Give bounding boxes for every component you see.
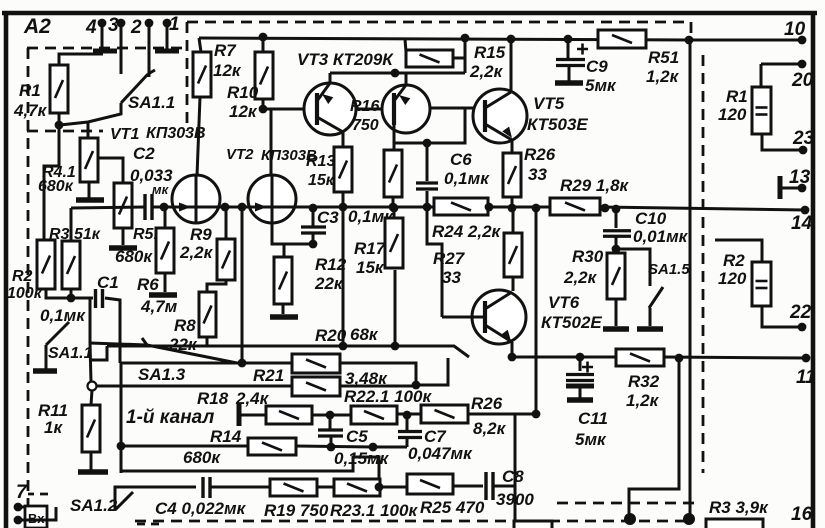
node top rail right — [685, 36, 694, 45]
svg-text:R26: R26 — [471, 394, 503, 413]
A2 dashed boundary inner box top — [27, 47, 187, 50]
wire R26 right — [468, 413, 536, 416]
svg-text:R16: R16 — [350, 98, 379, 115]
svg-text:680к: 680к — [115, 247, 153, 266]
svg-text:1-й канал: 1-й канал — [126, 407, 214, 428]
svg-text:R32: R32 — [628, 372, 660, 391]
resistor R19 — [270, 479, 317, 496]
svg-text:4,7к: 4,7к — [13, 101, 48, 120]
svg-text:R18: R18 — [197, 389, 229, 408]
svg-text:0,1мк: 0,1мк — [444, 169, 490, 188]
resistor R23.1 — [334, 479, 380, 496]
R20 bus left jog — [90, 346, 107, 360]
svg-text:22: 22 — [789, 302, 812, 323]
wire C7 bottom stub — [406, 438, 409, 447]
node C9 bus — [564, 35, 573, 44]
svg-text:SA1.1: SA1.1 — [128, 93, 175, 112]
resistor R3 body — [62, 241, 80, 289]
pin 2 wire — [148, 23, 151, 77]
wire R7 top stub — [199, 38, 201, 52]
capacitor C4 — [203, 477, 210, 498]
resistor R26 — [503, 153, 521, 197]
bottom component box mid — [514, 521, 552, 528]
transistor VT6 КТ502Е — [472, 290, 526, 344]
gate bus through VT1 VT2 — [153, 206, 434, 209]
resistor R1 120 — [752, 87, 771, 134]
ground under R4.1 — [76, 197, 104, 203]
capacitor C5 — [318, 430, 343, 436]
A2 dashed boundary left vertical — [27, 48, 30, 528]
svg-text:1,2к: 1,2к — [646, 67, 680, 86]
svg-text:12к: 12к — [213, 61, 242, 80]
input jack box Вх — [25, 506, 47, 528]
vertical x515 — [514, 414, 517, 521]
wire R21 right — [340, 363, 416, 385]
wire C9 bottom stub — [568, 66, 571, 81]
svg-text:R14: R14 — [210, 427, 242, 446]
wire R4.1 tap to R5.1 — [98, 158, 123, 183]
svg-text:C10: C10 — [635, 209, 667, 228]
svg-text:680к: 680к — [38, 178, 74, 195]
node R13 bus — [339, 203, 348, 212]
svg-text:R10: R10 — [227, 83, 259, 102]
wire SA1.3 pivot feed — [90, 343, 147, 345]
wire C6 top stub — [426, 143, 429, 181]
wire R3 bottom — [70, 289, 73, 298]
wire R17 top — [393, 207, 396, 218]
svg-text:R2: R2 — [723, 251, 745, 270]
resistor R21 — [292, 354, 340, 373]
svg-text:R13: R13 — [306, 153, 335, 170]
svg-text:R25 470: R25 470 — [420, 498, 485, 517]
svg-text:SA1.5: SA1.5 — [648, 261, 690, 278]
svg-text:16: 16 — [791, 504, 813, 525]
wire VT5 collector up — [510, 40, 513, 92]
svg-text:0,047мк: 0,047мк — [408, 444, 473, 463]
resistor R16 — [384, 150, 402, 197]
border right — [811, 11, 816, 528]
svg-text:0,01мк: 0,01мк — [633, 227, 689, 246]
svg-text:VT2: VT2 — [226, 146, 254, 163]
wire vertical 537 — [535, 208, 538, 414]
wire R3 top stub — [70, 208, 73, 241]
R20 bus — [107, 346, 469, 357]
svg-text:R26: R26 — [524, 145, 556, 164]
capacitor C9 plates — [556, 60, 585, 66]
svg-text:120: 120 — [718, 105, 747, 124]
wire SA1.1 lower pivot — [45, 345, 48, 369]
node ring SA1.2 link — [88, 382, 97, 391]
svg-text:SA1.2: SA1.2 — [70, 496, 118, 515]
svg-text:R8: R8 — [174, 316, 196, 335]
ground under R12 — [270, 314, 298, 320]
resistor R6 — [156, 228, 174, 273]
svg-text:мк: мк — [152, 182, 170, 197]
node C7 top — [403, 411, 412, 420]
node C1 left — [67, 294, 76, 303]
wire C10 top stub — [615, 209, 618, 228]
capacitor C2 — [145, 194, 152, 220]
emitter rail — [330, 72, 465, 75]
wire pin7 upper — [18, 506, 26, 509]
svg-text:VT3 КТ209К: VT3 КТ209К — [297, 50, 394, 69]
svg-text:А2: А2 — [23, 15, 51, 38]
svg-text:120: 120 — [718, 269, 747, 288]
switch SA1.3 tick — [142, 338, 147, 345]
transistor VT2 КП303В — [248, 175, 296, 223]
node bus x537 — [532, 204, 541, 213]
switch SA1.1 arm — [121, 74, 148, 103]
svg-text:4: 4 — [85, 17, 97, 38]
capacitor C10 — [603, 231, 631, 237]
A2 dashed boundary top — [187, 22, 691, 36]
wire node to R6 top — [164, 207, 167, 228]
wire SA1.1 pivot to R1 node — [60, 103, 121, 125]
svg-text:1к: 1к — [44, 418, 63, 437]
svg-text:R51: R51 — [648, 48, 679, 67]
node VT6 emitter bus — [508, 353, 517, 362]
wire C7 bottom left — [373, 446, 407, 449]
wire R10 top stub — [262, 37, 265, 52]
svg-text:15к: 15к — [308, 172, 335, 189]
svg-text:R9: R9 — [190, 225, 212, 244]
svg-text:100к: 100к — [7, 285, 43, 302]
transistor VT4 — [382, 85, 430, 133]
capacitor C11 plus — [582, 362, 593, 373]
node C3 bottom — [309, 240, 318, 249]
wire SA1.2 drop — [25, 507, 56, 520]
node R25 left — [375, 483, 384, 492]
capacitor C7 — [398, 432, 422, 438]
pin 3 dot — [117, 19, 126, 28]
resistor R5.1 — [114, 183, 132, 228]
svg-text:0,1мк: 0,1мк — [40, 306, 86, 325]
svg-text:2,2к: 2,2к — [563, 268, 598, 287]
wire R9 bottom to R8 top — [207, 280, 226, 292]
main mid bus left — [433, 206, 436, 209]
resistor R7 — [193, 52, 211, 97]
pin 13 dot — [798, 184, 807, 193]
wire R18 right — [312, 414, 351, 417]
ground under R11 — [78, 469, 108, 475]
svg-text:R2: R2 — [12, 268, 33, 285]
svg-text:VT1: VT1 — [110, 126, 139, 143]
wire R17 bottom vertical — [394, 270, 397, 346]
ground under SA1.1 — [33, 368, 57, 374]
node VT1 gate — [160, 203, 169, 212]
wire R30 bottom — [615, 299, 618, 326]
svg-text:750: 750 — [352, 117, 379, 134]
svg-text:1,2к: 1,2к — [626, 391, 660, 410]
bottom connector blob left — [624, 513, 636, 525]
svg-text:R19 750: R19 750 — [264, 501, 329, 520]
resistor R12 — [274, 257, 292, 304]
resistor R25 — [407, 474, 453, 494]
output bus to pin11 — [664, 357, 806, 358]
resistor R2 120 — [752, 262, 771, 306]
switch SA1.1 arm tick — [148, 70, 155, 74]
wire node to R4.1 top — [87, 122, 90, 138]
wire bottom row left — [115, 487, 196, 510]
bottom connector blob right — [683, 513, 695, 525]
ground under C11 — [567, 397, 593, 403]
wire VT5 emitter to R26 — [511, 140, 514, 153]
svg-text:4,7м: 4,7м — [140, 297, 178, 316]
pin 3 wire — [120, 23, 123, 74]
svg-text:C3: C3 — [317, 208, 339, 227]
svg-text:R22.1 100к: R22.1 100к — [344, 387, 432, 406]
wire node to VT3 base — [263, 108, 306, 111]
emitter rail VT4 — [405, 73, 408, 85]
pin 7 dot lower — [14, 516, 23, 525]
border top — [2, 11, 817, 16]
wire VT4 collector to VT5 base — [430, 107, 477, 110]
wire R1 node down-left to R2 — [44, 125, 59, 240]
svg-text:C8: C8 — [502, 467, 524, 486]
border left — [4, 11, 9, 528]
svg-text:R30: R30 — [572, 247, 604, 266]
svg-text:2: 2 — [130, 17, 142, 38]
node R20 bus x395 — [391, 342, 400, 351]
node C5 top — [326, 411, 335, 420]
wire pin20 horizontal — [761, 63, 802, 66]
capacitor C9 plus — [577, 44, 588, 55]
wire R10 bottom — [262, 99, 265, 109]
wire C11 stub — [579, 357, 582, 371]
contact bar R18 input — [237, 403, 242, 426]
node C7 bottom — [369, 443, 378, 452]
pin 22 dot — [798, 323, 807, 332]
svg-text:13: 13 — [789, 167, 811, 188]
resistor R14 — [248, 438, 296, 455]
node R20 bus x343 — [339, 342, 348, 351]
wire node to C1 — [71, 297, 93, 300]
wire gate bus left — [71, 207, 144, 208]
node R10 bottom — [259, 105, 268, 114]
svg-text:1: 1 — [169, 14, 180, 35]
svg-text:R3 3,9к: R3 3,9к — [709, 498, 769, 517]
A2 dashed boundary upper-left vertical — [186, 22, 189, 131]
svg-text:R27: R27 — [433, 249, 466, 268]
node x537 bottom — [532, 410, 541, 419]
pin 10 dot — [798, 36, 807, 45]
node R30 top — [612, 245, 621, 254]
node VT2 gate feedback — [238, 203, 247, 212]
node R16 bus — [389, 203, 398, 212]
svg-text:C4 0,022мк: C4 0,022мк — [155, 499, 247, 518]
resistor R9 — [217, 239, 235, 280]
pin 4 wire — [101, 23, 104, 49]
wire vertical to ring — [90, 343, 91, 382]
wire C1 right to vertical — [105, 298, 120, 363]
node R1 bottom — [55, 121, 64, 130]
wire C6 net to VT6 base — [427, 207, 442, 317]
node bus R15 right — [461, 34, 470, 43]
svg-text:R20: R20 — [315, 326, 347, 345]
pin 1 contact bar — [155, 49, 179, 54]
wire C3 stub — [312, 207, 315, 226]
svg-text:23: 23 — [792, 128, 815, 149]
pin 20 dot — [798, 60, 807, 69]
wire pin13 — [780, 187, 802, 190]
wire R13 bottom — [342, 192, 345, 207]
svg-text:10: 10 — [784, 19, 806, 40]
resistor R17 — [385, 218, 403, 268]
node C10 bus — [612, 205, 621, 214]
pin 4 contact bar — [93, 49, 117, 54]
ground under R30 — [603, 326, 629, 332]
svg-text:14: 14 — [791, 213, 813, 234]
resistor R22.1 — [292, 377, 340, 396]
node R22 junction — [412, 381, 421, 390]
long vertical rail x690 — [689, 40, 692, 517]
ground under SA1.5 — [637, 326, 663, 332]
node C5 bottom — [327, 443, 336, 452]
pin 1 dot — [163, 19, 172, 28]
svg-text:2,2к: 2,2к — [179, 243, 214, 262]
node R14 left — [117, 442, 126, 451]
wire bar to R18 — [239, 414, 266, 417]
emitter rail VT3 — [329, 73, 332, 83]
svg-text:КТ503Е: КТ503Е — [527, 115, 588, 134]
node R32 right — [675, 354, 684, 363]
row wire y446 — [121, 445, 248, 448]
resistor R18 — [266, 406, 312, 424]
wire R4.1 bottom — [88, 182, 91, 198]
resistor R8 — [199, 292, 216, 337]
svg-text:33: 33 — [442, 268, 461, 287]
pin 7 dot upper — [14, 503, 23, 512]
resistor R51 — [598, 30, 646, 48]
svg-text:R17: R17 — [354, 239, 387, 258]
wire R8 bottom to bus — [206, 337, 209, 347]
transistor VT1 КП303В — [172, 175, 220, 223]
node SA1.3 output — [238, 359, 247, 368]
svg-text:R1: R1 — [726, 87, 748, 106]
svg-text:2,4к: 2,4к — [235, 389, 270, 408]
resistor R27 — [504, 233, 522, 277]
wire R23.1 to R25 — [380, 486, 407, 489]
row wire y386 — [96, 385, 292, 388]
wire R26 bottom — [511, 197, 514, 207]
node R29 right — [601, 204, 610, 213]
wire C5 bottom stub — [330, 436, 333, 447]
resistor R1 — [50, 65, 68, 113]
svg-text:SA1.1: SA1.1 — [48, 345, 93, 362]
resistor R24 — [434, 198, 488, 215]
SA1.2 dashed linkage — [137, 524, 160, 528]
pin 13 bar — [778, 176, 783, 199]
wire R15 left stub — [405, 39, 406, 52]
ground under R6 — [149, 292, 177, 298]
svg-text:R21: R21 — [253, 366, 284, 385]
wire R27 bottom to VT6 — [512, 277, 515, 291]
wire R12 bottom — [282, 304, 285, 314]
wire VT2 feedback vertical — [241, 207, 244, 363]
pin 23 dot — [799, 146, 808, 155]
resistor R2 100к — [37, 240, 55, 289]
capacitor C6 — [416, 183, 438, 189]
resistor R26 8,2к — [421, 405, 468, 423]
svg-text:15к: 15к — [356, 258, 385, 277]
wire row3 right — [397, 413, 421, 416]
svg-text:VT5: VT5 — [533, 94, 565, 113]
svg-text:C11: C11 — [578, 409, 608, 428]
wire R2 bottom to node — [46, 289, 71, 298]
row wire y363 — [121, 362, 292, 365]
wire R22.1 right — [340, 385, 416, 388]
switch SA1.2 arm — [115, 492, 133, 510]
resistor R29 — [550, 198, 600, 215]
wire vertical x343 — [342, 207, 345, 346]
svg-text:R29 1,8к: R29 1,8к — [560, 176, 630, 195]
svg-text:5мк: 5мк — [575, 430, 607, 449]
resistor R15 — [406, 50, 453, 67]
svg-text:12к: 12к — [229, 102, 258, 121]
svg-text:КТ502Е: КТ502Е — [541, 313, 602, 332]
svg-text:680к: 680к — [183, 448, 221, 467]
svg-text:22к: 22к — [314, 274, 344, 293]
wire R1-120 top — [760, 64, 763, 87]
output bus to R32 — [512, 356, 616, 359]
A2 dashed boundary inner box bottom — [27, 130, 103, 133]
node R17 bus — [390, 204, 399, 213]
node R26 bus — [508, 204, 517, 213]
wire R7 bottom to VT1 drain — [197, 97, 200, 176]
A2 dashed boundary right vertical — [702, 55, 705, 473]
svg-text:R6: R6 — [137, 275, 159, 294]
wire VT3 collector to R13 — [342, 132, 345, 147]
node C3 top — [309, 204, 318, 213]
node between FETs — [221, 203, 230, 212]
mid bus to pin14 — [600, 207, 805, 210]
wire R6 bottom — [164, 273, 167, 292]
resistor R11 — [82, 405, 100, 452]
wire base tap down — [395, 108, 465, 143]
resistor R13 — [334, 147, 352, 192]
svg-text:C2: C2 — [133, 144, 155, 163]
wire C9 stub — [567, 39, 570, 59]
wire C7 top stub — [406, 415, 409, 431]
resistor R30 — [607, 253, 625, 299]
wire R16 bottom — [392, 197, 395, 207]
svg-text:КП303В: КП303В — [146, 125, 206, 142]
node C6 bus — [423, 203, 432, 212]
svg-text:R23.1 100к: R23.1 100к — [330, 501, 418, 520]
pin 4 dot — [98, 19, 107, 28]
pin 14 dot — [801, 206, 810, 215]
SA1.2 dashed box fragment — [28, 493, 48, 496]
svg-text:68к: 68к — [350, 325, 379, 344]
node C11 top — [576, 353, 585, 362]
wire C5 top stub — [329, 415, 332, 430]
pin 1 wire — [166, 23, 169, 49]
node VT5 collector bus — [507, 35, 516, 44]
transistor VT5 КТ503Е — [473, 89, 527, 143]
wire C2 to VT1 gate — [153, 206, 173, 209]
wire VT6 base — [442, 316, 485, 319]
capacitor C8 — [486, 472, 493, 500]
wire R19 to R23.1 — [317, 486, 334, 489]
return wire y470 — [121, 457, 379, 486]
capacitor C11 plates — [566, 375, 594, 381]
svg-text:SA1.3: SA1.3 — [138, 365, 186, 384]
vertical x121 — [120, 363, 123, 473]
node R10 top — [259, 33, 268, 42]
wire R1 bottom — [58, 113, 61, 125]
resistor R22 row3 — [351, 406, 397, 424]
node R24 right — [485, 203, 494, 212]
